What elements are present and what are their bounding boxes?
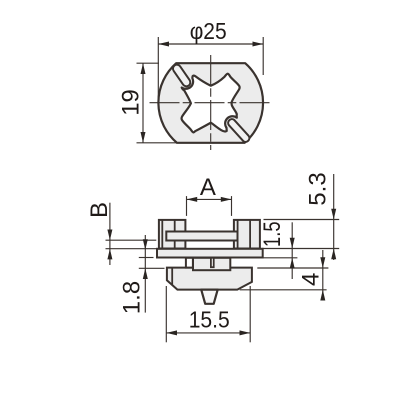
svg-text:B: B <box>86 202 113 218</box>
svg-text:1.8: 1.8 <box>118 281 145 314</box>
svg-text:15.5: 15.5 <box>189 307 230 333</box>
svg-text:A: A <box>200 174 216 201</box>
svg-text:φ25: φ25 <box>190 18 227 44</box>
svg-text:5.3: 5.3 <box>305 172 332 205</box>
svg-text:19: 19 <box>117 89 144 116</box>
svg-text:1.5: 1.5 <box>259 221 286 247</box>
svg-text:4: 4 <box>297 273 324 286</box>
